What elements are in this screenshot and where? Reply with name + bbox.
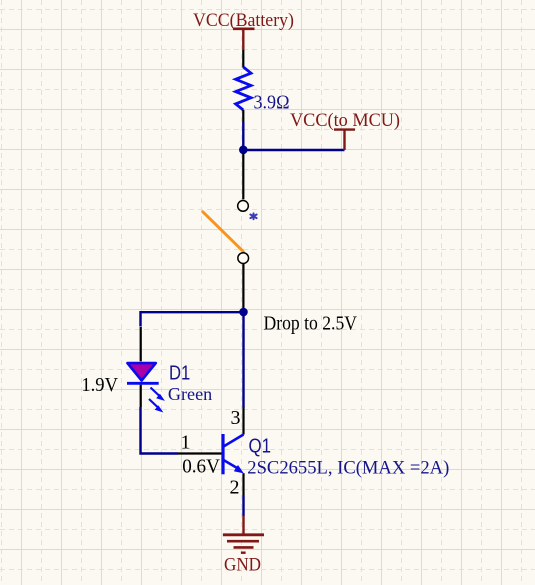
transistor Q1 body bbox=[223, 434, 244, 474]
resistor pin 2 bbox=[242, 110, 244, 122]
switch S1 blade bbox=[203, 212, 244, 252]
LED D1 anode pin bbox=[140, 327, 142, 361]
wire emitter to ground bbox=[242, 496, 244, 517]
svg-text:3: 3 bbox=[231, 407, 241, 429]
switch S1 terminal 2 bbox=[238, 253, 249, 264]
LED D1 emission arrows bbox=[149, 388, 165, 413]
svg-text:GND: GND bbox=[224, 555, 261, 576]
transistor Q1 emitter pin bbox=[242, 473, 244, 495]
junction node A bbox=[239, 146, 248, 155]
junction node Drop to 2.5V bbox=[239, 308, 248, 317]
wire junction down to collector bbox=[242, 312, 244, 408]
wire junction to switch top pin bbox=[242, 153, 244, 199]
power port VCC(Battery) bbox=[193, 10, 294, 50]
svg-text:D1: D1 bbox=[169, 363, 190, 385]
svg-text:Drop to 2.5V: Drop to 2.5V bbox=[264, 313, 358, 335]
wire junction left to LED branch bbox=[141, 312, 244, 326]
svg-text:Q1: Q1 bbox=[249, 436, 272, 458]
power port VCC(to MCU) bbox=[290, 110, 400, 150]
wire resistor to junction bbox=[242, 122, 244, 151]
resistor 3.9ohm body bbox=[236, 67, 251, 110]
svg-text:0.6V: 0.6V bbox=[182, 455, 220, 477]
svg-text:2SC2655L, IC(MAX =2A): 2SC2655L, IC(MAX =2A) bbox=[247, 458, 449, 479]
svg-text:3.9Ω: 3.9Ω bbox=[254, 92, 290, 114]
wire switch bottom pin to junction bbox=[242, 263, 244, 309]
svg-text:VCC(to MCU): VCC(to MCU) bbox=[290, 110, 400, 131]
switch designator * bbox=[250, 213, 256, 219]
ground GND bbox=[223, 516, 264, 576]
svg-text:1: 1 bbox=[181, 432, 191, 454]
switch S1 terminal 1 bbox=[238, 201, 249, 212]
svg-text:1.9V: 1.9V bbox=[81, 374, 118, 396]
svg-text:2: 2 bbox=[230, 477, 240, 499]
svg-text:Green: Green bbox=[168, 384, 212, 404]
wire LED to base bbox=[141, 407, 179, 454]
transistor Q1 collector pin bbox=[242, 408, 244, 435]
wire junction to VCC(to MCU) bbox=[243, 149, 344, 151]
LED D1 body bbox=[127, 363, 159, 383]
wire battery rail (resistor pin 1) bbox=[242, 50, 244, 68]
LED D1 cathode pin bbox=[140, 385, 142, 407]
transistor Q1 base pin bbox=[178, 452, 223, 454]
